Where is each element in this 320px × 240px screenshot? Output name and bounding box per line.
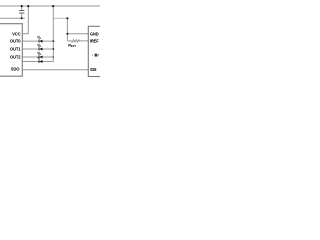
svg-text:REXT: REXT	[68, 42, 76, 48]
svg-text:SDI: SDI	[90, 67, 96, 72]
svg-text:VCC: VCC	[12, 31, 21, 36]
svg-text:IREF: IREF	[90, 38, 99, 43]
svg-text:OUT1: OUT1	[10, 46, 21, 51]
svg-text:SDO: SDO	[11, 67, 21, 72]
svg-text:OUT0: OUT0	[10, 39, 21, 44]
svg-text:OUT2: OUT2	[10, 54, 21, 59]
svg-text:GND: GND	[90, 31, 99, 36]
